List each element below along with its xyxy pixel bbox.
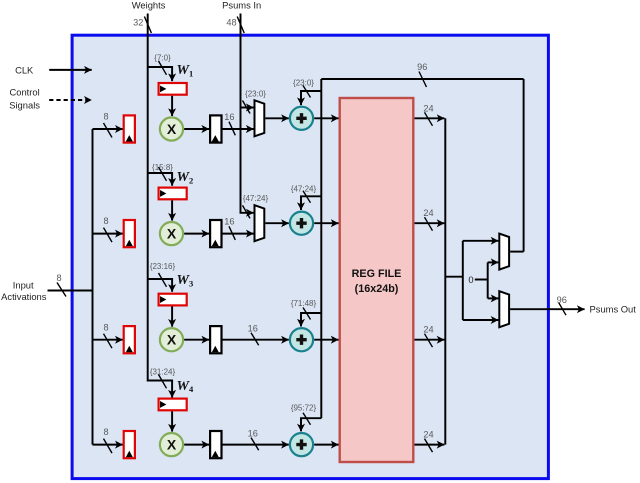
svg-text:{47:24}: {47:24}	[243, 194, 269, 203]
svg-text:{15:8}: {15:8}	[152, 163, 173, 172]
node psum bits {23:0}	[243, 89, 267, 113]
node feedback bits {47:24}	[291, 184, 317, 203]
node weight bits {15:8}	[152, 163, 173, 181]
node psum bits {47:24}	[243, 194, 269, 218]
label W4	[177, 379, 194, 394]
node weight bits {23:16}	[150, 262, 176, 287]
wire adder to reg file row2	[314, 222, 338, 224]
register R2b (product reg)	[210, 220, 221, 247]
wire activation branch row1	[93, 128, 123, 130]
label W1	[177, 63, 194, 78]
svg-text:X: X	[167, 121, 177, 137]
node 8b row3	[103, 322, 112, 348]
wire activation branch row3	[93, 339, 123, 341]
label CLK	[15, 64, 34, 75]
wire activation branch row4	[93, 444, 123, 446]
multiplier X4	[160, 433, 183, 456]
svg-text:48: 48	[226, 18, 236, 28]
svg-text:Signals: Signals	[9, 99, 40, 110]
node feedback bits {23:0}	[293, 78, 314, 97]
node 96b out	[557, 295, 567, 315]
register R4a (input reg)	[124, 431, 135, 458]
label W2	[177, 170, 194, 185]
wire reg file output row2	[415, 222, 445, 224]
wire feedback vertical	[320, 79, 322, 418]
wire reg file output row3	[415, 339, 445, 341]
wire psums-in tap row1	[241, 107, 254, 109]
wire 24b collection bus	[444, 118, 446, 444]
wire feedback tap row3	[301, 313, 321, 327]
register R1b (product reg)	[210, 115, 221, 142]
svg-text:{71:48}: {71:48}	[291, 299, 317, 308]
wire psums-in bus vertical	[241, 14, 254, 213]
svg-text:Psums In: Psums In	[222, 0, 261, 11]
svg-text:32: 32	[133, 18, 143, 28]
wire weight reg to multiplier row1	[171, 96, 173, 116]
wire product to mux row1	[222, 128, 254, 130]
node 24b row2	[423, 208, 433, 231]
svg-text:8: 8	[103, 216, 108, 226]
wire adder to reg file row4	[314, 444, 338, 446]
svg-text:{23:0}: {23:0}	[245, 89, 266, 98]
svg-text:{95:72}: {95:72}	[291, 404, 317, 413]
node Weights bus 32b	[133, 17, 151, 34]
register R4b (product reg)	[210, 431, 221, 458]
wire psums out	[510, 308, 584, 310]
svg-text:X: X	[167, 437, 177, 453]
node 96b feedback	[417, 62, 427, 87]
mux M6 (output mux)	[499, 291, 509, 327]
adder A2	[290, 212, 313, 235]
svg-text:8: 8	[103, 112, 108, 122]
register W3 (weight reg)	[159, 294, 187, 306]
node 8b row1	[103, 112, 112, 138]
svg-text:{23:16}: {23:16}	[150, 262, 176, 271]
node weight bits {7:0}	[154, 54, 171, 75]
node 24b row1	[423, 103, 433, 126]
wire multiplier to register row1	[184, 128, 209, 130]
label Input Activations	[1, 280, 47, 303]
wire weights bus vertical	[148, 14, 172, 398]
svg-text:0: 0	[468, 274, 473, 285]
mux M2	[255, 205, 265, 241]
wire branch to mux M5 input1	[463, 240, 499, 242]
node input activations 8b	[56, 273, 66, 297]
svg-text:Weights: Weights	[132, 0, 166, 11]
svg-text:{7:0}: {7:0}	[154, 54, 171, 63]
wire weight reg to multiplier row3	[171, 307, 173, 327]
reg file U1	[340, 98, 414, 462]
svg-text:(16x24b): (16x24b)	[355, 283, 399, 295]
node 16b row4	[248, 428, 259, 450]
wire zero to mux M6 input1	[488, 297, 499, 299]
wire product to adder row4	[222, 444, 289, 446]
node 8b row4	[103, 427, 112, 453]
label Weights	[132, 0, 166, 11]
wire weight tap row2	[148, 173, 172, 186]
svg-text:96: 96	[557, 295, 567, 305]
wire feedback tap row4	[301, 418, 321, 431]
wire output mux return vertical	[523, 79, 525, 252]
svg-text:CLK: CLK	[15, 64, 34, 75]
node constant 0	[468, 262, 487, 298]
svg-text:24: 24	[423, 103, 433, 113]
multiplier X1	[160, 117, 183, 140]
svg-text:Psums Out: Psums Out	[590, 304, 637, 315]
wire feedback tap row1	[301, 91, 321, 105]
wire adder to reg file row3	[314, 339, 338, 341]
svg-text:8: 8	[103, 322, 108, 332]
svg-text:16: 16	[248, 428, 258, 438]
wire weight tap row1	[148, 67, 172, 81]
wire bus branch to muxes	[445, 241, 463, 320]
svg-text:8: 8	[103, 427, 108, 437]
PE block outline	[72, 35, 548, 478]
node 8b row2	[103, 216, 112, 242]
label Control Signals	[9, 86, 40, 110]
wire control signals dashed arrow	[49, 99, 91, 101]
wire product to adder row3	[222, 339, 289, 341]
wire mux to adder row1	[265, 117, 289, 119]
register W1 (weight reg)	[159, 83, 187, 95]
register R2a (input reg)	[124, 220, 135, 247]
wire feedback 96b top	[321, 78, 523, 80]
svg-text:Input: Input	[13, 280, 34, 291]
register R3a (input reg)	[124, 326, 135, 353]
node 16b row1	[224, 112, 235, 136]
register R1a (input reg)	[124, 115, 135, 142]
svg-text:16: 16	[224, 112, 234, 122]
wire weight reg to multiplier row4	[171, 411, 173, 431]
svg-text:{31:24}: {31:24}	[150, 367, 176, 376]
svg-text:16: 16	[224, 216, 234, 226]
wire CLK input arrow	[49, 69, 91, 71]
svg-text:X: X	[167, 332, 177, 348]
svg-text:REG FILE: REG FILE	[352, 268, 402, 280]
wire reg file output row4	[415, 444, 445, 446]
wire mux to adder row2	[265, 222, 289, 224]
wire activation distribution vertical	[92, 129, 94, 445]
adder A1	[290, 107, 313, 130]
wire weight reg to multiplier row2	[171, 200, 173, 220]
wire feedback tap row2	[301, 196, 321, 210]
wire zero to mux M5 input2	[488, 261, 499, 263]
label W3	[177, 273, 194, 288]
multiplier X2	[160, 222, 183, 245]
wire reg file output row1	[415, 117, 445, 119]
register R3b (product reg)	[210, 326, 221, 353]
svg-text:X: X	[167, 226, 177, 242]
node feedback bits {95:72}	[291, 404, 317, 425]
node 16b row2	[224, 216, 235, 240]
node 24b row4	[423, 430, 433, 453]
register W4 (weight reg)	[159, 399, 187, 411]
label Psums In	[222, 0, 261, 11]
wire multiplier to register row3	[184, 339, 209, 341]
mux M1	[255, 100, 265, 136]
wire adder to reg file row1	[314, 117, 338, 119]
label Psums Out	[590, 304, 637, 315]
svg-text:Activations: Activations	[1, 291, 47, 302]
node weight bits {31:24}	[150, 367, 176, 388]
wire product to mux row2	[222, 233, 254, 235]
svg-text:24: 24	[423, 208, 433, 218]
adder A4	[290, 433, 313, 456]
svg-text:16: 16	[248, 324, 258, 334]
multiplier X3	[160, 328, 183, 351]
node feedback bits {71:48}	[291, 299, 317, 320]
wire weight tap row3	[148, 279, 172, 292]
adder A3	[290, 328, 313, 351]
svg-text:24: 24	[423, 430, 433, 440]
node 24b row3	[423, 325, 433, 348]
svg-text:96: 96	[417, 62, 427, 72]
wire input activations	[48, 290, 93, 292]
wire branch to mux M6 input2	[463, 319, 499, 321]
wire mux M5 output	[510, 251, 523, 253]
node 16b row3	[248, 324, 259, 346]
wire multiplier to register row4	[184, 444, 209, 446]
svg-text:8: 8	[56, 273, 61, 283]
mux M5 (feedback mux)	[499, 234, 509, 270]
svg-text:24: 24	[423, 325, 433, 335]
node Psums In bus 48b	[226, 17, 244, 34]
svg-text:Control: Control	[9, 86, 39, 97]
wire multiplier to register row2	[184, 233, 209, 235]
register W2 (weight reg)	[159, 188, 187, 200]
wire activation branch row2	[93, 233, 123, 235]
